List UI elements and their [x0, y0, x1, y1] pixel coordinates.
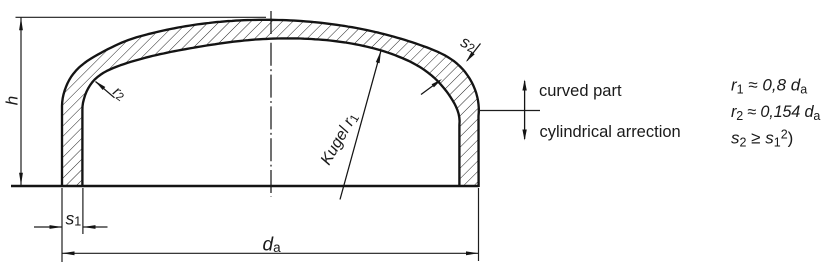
svg-text:s1: s1: [66, 209, 82, 229]
svg-text:da: da: [263, 235, 282, 256]
svg-text:r1 ≈ 0,8 da: r1 ≈ 0,8 da: [731, 76, 807, 97]
svg-text:r2: r2: [109, 83, 129, 104]
svg-text:s2: s2: [458, 33, 479, 56]
svg-text:r2 ≈ 0,154 da: r2 ≈ 0,154 da: [731, 103, 820, 123]
svg-text:Kugel r1: Kugel r1: [318, 110, 362, 169]
svg-text:h: h: [3, 96, 22, 105]
svg-text:cylindrical arrection: cylindrical arrection: [540, 123, 681, 141]
svg-text:s2 ≥ s12): s2 ≥ s12): [731, 128, 793, 150]
svg-text:curved part: curved part: [539, 82, 622, 100]
